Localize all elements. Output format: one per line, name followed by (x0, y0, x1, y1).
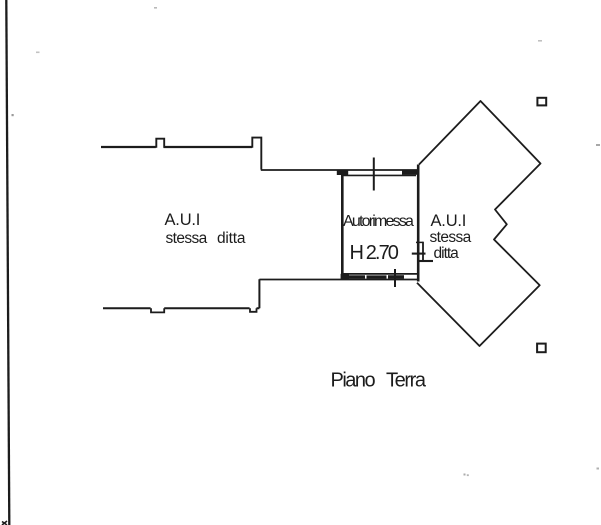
right wall level symbol top tick (416, 241, 424, 243)
bottom-right small square (537, 344, 546, 353)
left page border line (6, 0, 9, 525)
svg-text:Piano: Piano (331, 370, 376, 392)
left room bottom wall notch down (151, 308, 164, 312)
faint scan speck top left (154, 7, 157, 9)
garage top wall fill left (337, 170, 348, 175)
garage top wall fill right (402, 170, 417, 175)
left room top wall continued (164, 146, 252, 148)
faint scan speck right edge (596, 144, 600, 146)
left room top-right notch and step down (252, 138, 261, 170)
garage top wall inner line (343, 174, 416, 176)
right wall level symbol vertical (422, 242, 424, 261)
section cross mark bottom wall (394, 269, 396, 287)
garage bottom wall inner line (342, 273, 418, 275)
bottom-left x mark (2, 521, 7, 525)
svg-text:stessa: stessa (430, 229, 472, 246)
left room bottom step up (257, 279, 260, 308)
svg-text:A.U.I: A.U.I (165, 211, 201, 229)
svg-text:H 2.70: H 2.70 (350, 242, 399, 264)
svg-text:ditta: ditta (217, 230, 246, 247)
svg-text:Autorimessa: Autorimessa (343, 213, 414, 230)
faint scan speck top right (538, 40, 542, 42)
faint specks lower right (464, 474, 466, 476)
left room bottom-right small dip (250, 308, 257, 312)
faint speck left border area (12, 114, 14, 116)
left room top wall chimney notch (156, 139, 164, 148)
left room bottom wall (103, 307, 151, 309)
garage bottom wall fill 1 (349, 275, 365, 278)
right wall level symbol mid bar (412, 253, 426, 255)
corridor bottom wall to garage (259, 279, 418, 281)
corridor top wall to garage (261, 169, 419, 171)
garage right wall (417, 165, 420, 282)
garage bottom wall fill 3 (388, 275, 404, 279)
svg-text:stessa: stessa (166, 230, 208, 247)
svg-text:A.U.I: A.U.I (431, 212, 467, 230)
left room bottom wall continued (164, 307, 249, 309)
garage bottom-left corner fill (341, 274, 349, 280)
faint speck right edge lower (597, 468, 600, 470)
garage left wall (341, 171, 344, 280)
left room top wall (101, 146, 156, 148)
right wing zigzag outline (417, 101, 541, 346)
svg-text:Terra: Terra (386, 370, 427, 392)
svg-text:ditta: ditta (434, 245, 460, 262)
right wall level symbol bottom bar (418, 260, 433, 262)
section cross mark top wall (373, 158, 375, 191)
top-right small square (537, 98, 546, 106)
faint speck upper left (36, 52, 40, 54)
garage bottom wall fill 2 (367, 275, 387, 278)
